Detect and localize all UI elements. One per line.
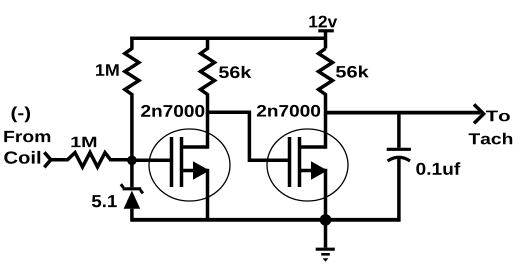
capacitor C1 0.1uf bbox=[387, 112, 411, 221]
label 0.1uf bbox=[416, 162, 460, 175]
node input terminal chevron bbox=[44, 152, 51, 167]
wire top supply rail bbox=[130, 37, 325, 41]
label 2n7000 (Q2) bbox=[257, 105, 320, 117]
label Tach bbox=[469, 133, 513, 145]
wire coupling Q1 drain to Q2 gate bbox=[208, 112, 290, 160]
node output arrow bbox=[474, 104, 484, 123]
label 2n7000 (Q1) bbox=[141, 105, 204, 117]
label 1M (input) bbox=[71, 137, 96, 147]
transistor Q1 2n7000 bbox=[132, 112, 230, 219]
label 1M (R1) bbox=[96, 64, 119, 76]
ground bbox=[316, 219, 335, 261]
label 5.1 bbox=[92, 195, 117, 207]
transistor Q2 2n7000 bbox=[267, 129, 348, 219]
wire bottom rail bbox=[132, 218, 399, 222]
node junction dot A bbox=[127, 156, 137, 166]
label From bbox=[4, 131, 50, 142]
label Coil bbox=[4, 151, 40, 164]
label 56k (R2) bbox=[219, 66, 251, 78]
resistor R2 56k bbox=[201, 37, 215, 114]
diode D1 zener 5.1 bbox=[123, 187, 142, 190]
wire output to tach bbox=[326, 111, 481, 115]
resistor 1M input (horizontal) bbox=[51, 153, 132, 167]
node 12v terminal bbox=[318, 29, 334, 32]
label 12v bbox=[309, 16, 337, 28]
label To bbox=[486, 111, 510, 122]
resistor R1 1M (left pullup) bbox=[125, 37, 139, 188]
node junction dot B bbox=[320, 214, 332, 226]
label 56k (R3) bbox=[336, 66, 369, 78]
resistor R3 56k bbox=[319, 49, 333, 149]
label (-) bbox=[12, 107, 31, 123]
